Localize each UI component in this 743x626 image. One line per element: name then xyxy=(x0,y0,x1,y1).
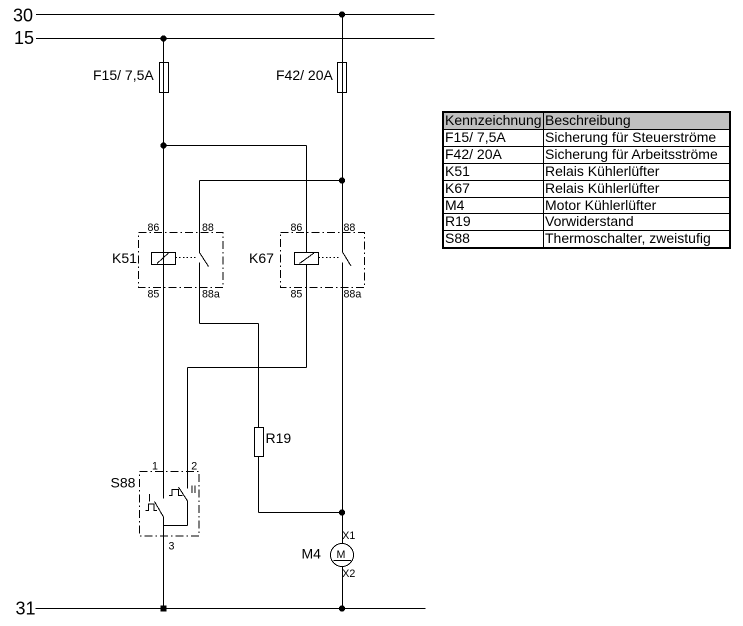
svg-text:88a: 88a xyxy=(344,289,362,301)
svg-text:1: 1 xyxy=(152,461,158,473)
svg-text:85: 85 xyxy=(148,289,160,301)
svg-text:F42/ 20A: F42/ 20A xyxy=(276,67,333,83)
svg-text:85: 85 xyxy=(291,289,303,301)
svg-text:X2: X2 xyxy=(342,568,355,580)
svg-text:30: 30 xyxy=(13,6,33,26)
svg-text:K67: K67 xyxy=(249,250,274,266)
svg-text:86: 86 xyxy=(148,222,160,234)
svg-text:88: 88 xyxy=(202,222,214,234)
svg-text:3: 3 xyxy=(169,541,175,553)
svg-text:M4: M4 xyxy=(302,546,322,562)
svg-text:2: 2 xyxy=(191,461,197,473)
svg-text:II: II xyxy=(191,484,197,496)
svg-text:15: 15 xyxy=(14,28,34,48)
svg-text:X1: X1 xyxy=(342,530,355,542)
svg-text:S88: S88 xyxy=(111,475,136,491)
svg-text:88: 88 xyxy=(344,222,356,234)
svg-text:31: 31 xyxy=(16,599,36,619)
svg-text:M: M xyxy=(337,549,346,561)
svg-text:F15/ 7,5A: F15/ 7,5A xyxy=(93,67,154,83)
svg-text:K51: K51 xyxy=(112,250,137,266)
svg-text:88a: 88a xyxy=(202,289,220,301)
svg-text:I: I xyxy=(148,493,151,505)
svg-text:R19: R19 xyxy=(266,430,292,446)
svg-text:86: 86 xyxy=(291,222,303,234)
